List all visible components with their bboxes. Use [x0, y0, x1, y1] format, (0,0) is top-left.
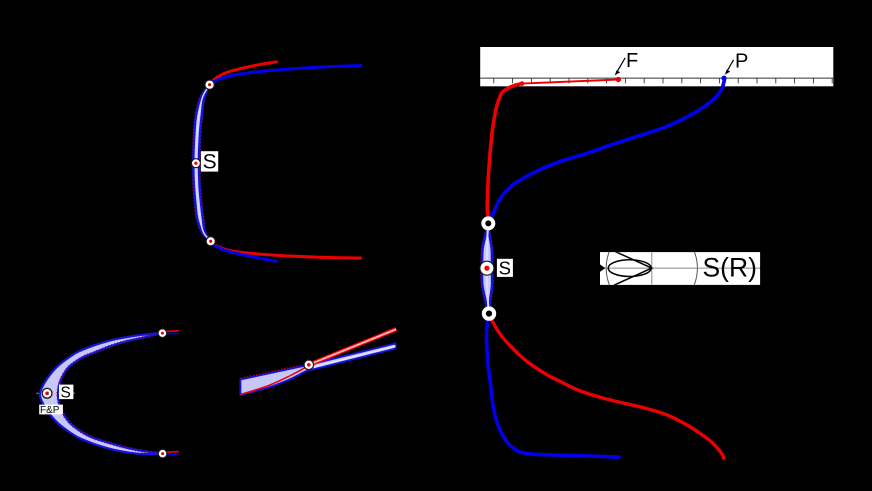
svg-text:P: P — [735, 51, 748, 73]
svg-text:S: S — [203, 151, 217, 174]
svg-text:S: S — [61, 385, 71, 402]
svg-text:S: S — [499, 257, 511, 278]
svg-text:F&P: F&P — [40, 405, 60, 416]
svg-text:F: F — [626, 50, 638, 72]
svg-text:S(R): S(R) — [703, 253, 757, 283]
